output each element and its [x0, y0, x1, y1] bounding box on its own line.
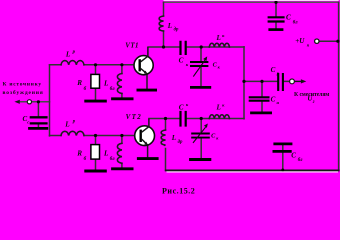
wire: capacitor Cbl2 stubs: [282, 145, 284, 170]
wire: VT2 emitter lead: [147, 145, 149, 157]
arrow: output terminal: [295, 80, 302, 82]
wire: variable capacitor Ck1 stubs: [200, 47, 202, 86]
wire: capacitor Cn stubs: [261, 81, 263, 112]
svg-text:L: L: [216, 104, 221, 112]
resistor Rb2 (VT2 base): [91, 145, 100, 160]
wire: output line to mixers: [244, 80, 290, 82]
svg-text:L: L: [167, 22, 172, 30]
ground under Lbl1: [111, 97, 133, 100]
svg-text:VT2: VT2: [126, 113, 142, 121]
svg-text:С: С: [179, 103, 184, 111]
ground under Cbl1: [268, 28, 283, 31]
svg-text:Рис.15.2: Рис.15.2: [162, 186, 195, 195]
wire: white emboss under bottom bus: [167, 171, 339, 173]
wire: tank output vertical bus: [243, 47, 245, 119]
resistor Rb1 (VT1 base): [91, 74, 100, 88]
node: +Un supply terminal: [315, 39, 319, 43]
wire: right-edge vertical (supply return): [338, 2, 340, 170]
capacitor Ck1 (series, top tank): [181, 41, 186, 55]
inductor Lk2 (bottom tank): [209, 115, 229, 119]
capacitor Cbl1 (supply blocking, top): [268, 17, 285, 21]
wire: bottom supply bus: [166, 169, 339, 171]
svg-text:бл: бл: [110, 87, 115, 92]
wire: variable capacitor Ck2 stubs: [200, 119, 202, 159]
svg-text:возбуждения: возбуждения: [3, 89, 43, 96]
ground under Rb2: [84, 170, 107, 173]
ground under top variable capacitor: [190, 86, 211, 89]
svg-text:L: L: [65, 51, 71, 59]
svg-text:С: С: [286, 14, 291, 22]
svg-text:С: С: [271, 96, 276, 104]
wire: inductor Lbl1 stubs: [121, 65, 123, 98]
inductor Lp2 (VT2 base feed): [61, 131, 84, 135]
capacitor Cn (output shunt): [249, 97, 270, 100]
svg-text:VT1: VT1: [125, 41, 138, 49]
svg-text:бл: бл: [110, 157, 115, 162]
wire: top supply bus: [164, 1, 339, 3]
wire: VT2 collector line: [149, 118, 244, 120]
capacitor Cc (input coupling): [30, 117, 48, 123]
arrow of variable capacitor, bottom: [193, 127, 206, 143]
svg-text:R: R: [76, 149, 82, 157]
capacitor Cp (output coupling): [278, 73, 283, 91]
capacitor Ck2-var (variable, bottom tank): [191, 134, 210, 138]
ground under Lbl2: [111, 167, 133, 170]
svg-text:К источнику: К источнику: [3, 82, 42, 88]
svg-text:н: н: [277, 100, 280, 105]
svg-text:др: др: [178, 140, 183, 145]
svg-text:L: L: [103, 80, 109, 88]
capacitor Ck1-var (variable, top tank): [190, 62, 208, 66]
wire: resistor Rb1 stubs: [95, 65, 97, 100]
wire: VT1 base line: [50, 64, 135, 66]
inductor Lbl2 (VT2 base shunt): [117, 143, 122, 163]
node: output terminal: [290, 79, 295, 84]
svg-text:+U: +U: [295, 37, 305, 45]
svg-text:бл: бл: [298, 158, 303, 163]
svg-text:L: L: [216, 34, 221, 42]
wire: capacitor Cc upper stub: [37, 102, 39, 116]
svg-text:др: др: [174, 27, 179, 32]
wire: VT1 collector line: [148, 46, 244, 48]
wire: input splitter vertical bus: [49, 65, 51, 136]
arrow of variable capacitor, top: [193, 60, 205, 76]
wire: inductor Lbl2 stubs: [121, 136, 123, 168]
ground under VT2 emitter: [137, 157, 159, 160]
svg-text:р: р: [72, 120, 76, 125]
inductor Lk1 (top tank): [209, 43, 229, 47]
svg-text:R: R: [76, 79, 82, 87]
ground under Cc: [28, 127, 48, 130]
svg-text:L: L: [103, 150, 109, 158]
capacitor Ck2 (series, bottom tank): [181, 111, 186, 127]
svg-text:С: С: [291, 151, 296, 159]
svg-text:с: с: [27, 119, 29, 124]
wire: input line from excitation source: [21, 101, 50, 103]
ground under Rb1: [84, 100, 107, 103]
transistor VT2: [135, 119, 155, 146]
svg-text:г: г: [313, 100, 315, 105]
svg-text:L: L: [64, 121, 70, 129]
node: input terminal: [27, 100, 31, 104]
ground under VT1 emitter: [137, 89, 158, 92]
inductor Ldr2 (collector choke, bottom): [161, 130, 165, 145]
ground under bottom variable capacitor: [189, 158, 211, 161]
svg-text:С: С: [271, 66, 276, 74]
wire: VT2 base line: [50, 135, 135, 137]
wire: Ldr1 choke leads: [163, 2, 165, 47]
transistor VT1: [134, 47, 154, 75]
svg-text:бл: бл: [293, 21, 298, 26]
arrow: input terminal: [14, 100, 19, 104]
ground under Cn: [250, 112, 272, 115]
wire: capacitor Cbl1 stubs: [275, 2, 277, 28]
wire: VT1 emitter lead: [146, 74, 148, 89]
wire: white emboss above top bus: [164, 0, 339, 2]
inductor Lp1 (VT1 base feed): [61, 61, 84, 65]
wire: Ldr2 choke leads: [165, 119, 167, 171]
wire: capacitor Cc lower stub: [37, 125, 39, 128]
junction dots (wire junctions): [37, 1, 340, 172]
inductor Lbl1 (VT1 base shunt): [117, 74, 122, 94]
wire: +Un feed segment: [319, 40, 339, 42]
capacitor Cbl2 (supply blocking, bottom): [273, 144, 293, 152]
inductor Ldr1 (collector choke, top): [159, 16, 163, 31]
wire: resistor Rb2 stubs: [95, 136, 97, 171]
svg-text:р: р: [72, 50, 76, 55]
svg-text:L: L: [171, 134, 176, 142]
svg-text:С: С: [179, 57, 184, 65]
